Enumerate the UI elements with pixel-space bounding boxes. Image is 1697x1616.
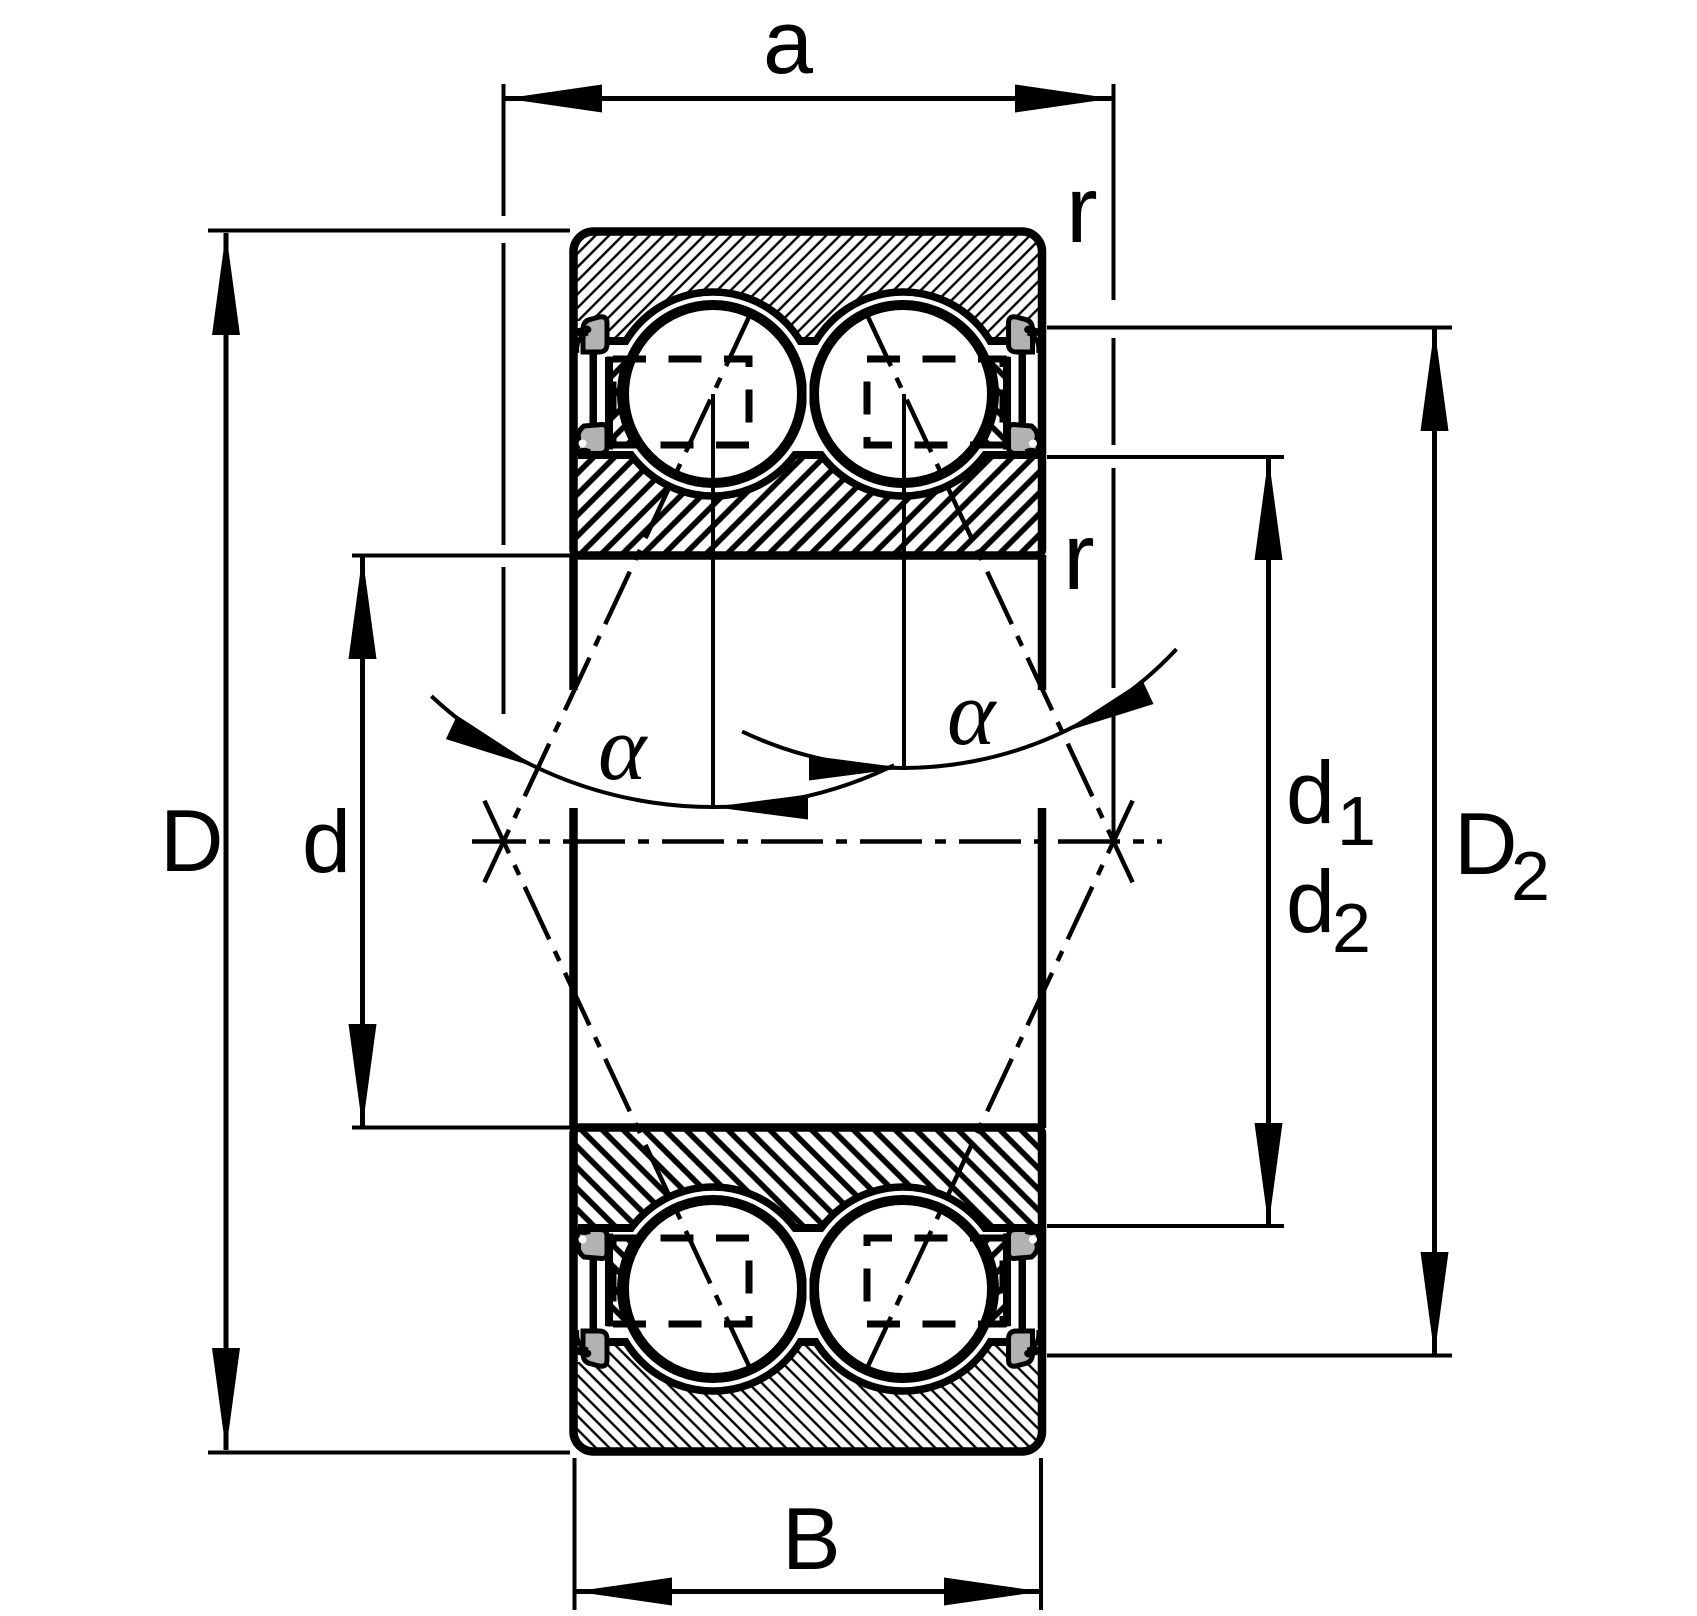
bottom bearing block (mirrored) xyxy=(574,1128,1043,1452)
contact cone line lower-left xyxy=(484,801,756,1381)
extension line d top xyxy=(352,554,574,558)
angle alpha arc left xyxy=(431,696,894,807)
svg-text:d: d xyxy=(1286,852,1335,951)
arrow a left xyxy=(505,85,602,113)
svg-text:d: d xyxy=(302,792,351,891)
extension line D2 bottom xyxy=(1047,1354,1452,1358)
arrow B right xyxy=(944,1578,1041,1606)
extension line a right xyxy=(1112,84,1116,841)
bore edge line left lower xyxy=(569,808,578,1128)
contact cone line upper-left xyxy=(484,302,756,882)
arrow D2 bottom xyxy=(1421,1252,1449,1355)
extension line D2 top xyxy=(1047,326,1452,330)
extension line a left xyxy=(502,84,506,714)
svg-text:2: 2 xyxy=(1332,889,1371,967)
dimension d line xyxy=(360,557,365,1126)
extension line d1 bottom xyxy=(1047,1224,1284,1228)
arrow B left xyxy=(575,1578,672,1606)
alpha arrow left-outer xyxy=(446,716,538,768)
arrow d1 bottom xyxy=(1255,1123,1283,1226)
alpha arrow right-outer xyxy=(1062,680,1154,732)
arrow d bottom xyxy=(349,1024,377,1128)
svg-text:r: r xyxy=(1066,157,1098,263)
arrow D2 top xyxy=(1421,328,1449,431)
radial reference line right ball xyxy=(902,394,906,766)
extension line d bottom xyxy=(352,1126,574,1130)
dimension B line xyxy=(576,1589,1040,1594)
svg-text:D: D xyxy=(1454,794,1518,893)
svg-text:a: a xyxy=(763,0,814,93)
dimension a line xyxy=(505,96,1112,101)
svg-text:1: 1 xyxy=(1337,782,1376,860)
arrow a right xyxy=(1015,85,1112,113)
dimension D line xyxy=(224,233,229,1450)
arrow d top xyxy=(349,556,377,659)
arrow d1 top xyxy=(1255,457,1283,560)
bore edge line right upper xyxy=(1038,555,1047,690)
extension line d1 top xyxy=(1047,455,1284,459)
svg-text:α: α xyxy=(598,697,648,799)
bore edge line left upper xyxy=(569,555,578,690)
dimension D2 line xyxy=(1432,329,1437,1354)
contact cone line upper-right xyxy=(861,302,1133,882)
angle alpha arc right xyxy=(742,649,1176,768)
extension line D top xyxy=(208,229,570,233)
extension line B right xyxy=(1039,1458,1043,1610)
extension line D bottom xyxy=(208,1451,570,1455)
svg-text:2: 2 xyxy=(1511,837,1550,915)
bore edge line right lower xyxy=(1038,808,1047,1128)
radial reference line left ball xyxy=(711,394,715,806)
alpha arrow left-inner xyxy=(713,795,808,820)
contact cone line lower-right xyxy=(861,801,1133,1381)
extension line B left xyxy=(573,1458,577,1610)
alpha arrow right-inner xyxy=(809,756,904,781)
svg-text:d: d xyxy=(1286,743,1335,842)
top bearing block xyxy=(574,232,1043,556)
arrow D bottom xyxy=(212,1348,240,1451)
svg-text:α: α xyxy=(947,662,997,764)
axis centerline xyxy=(472,839,1162,844)
dimension d1 d2 line xyxy=(1266,458,1271,1225)
arrow D top xyxy=(212,232,240,335)
svg-text:B: B xyxy=(782,1489,841,1588)
svg-text:D: D xyxy=(160,791,224,890)
svg-text:r: r xyxy=(1063,504,1095,610)
